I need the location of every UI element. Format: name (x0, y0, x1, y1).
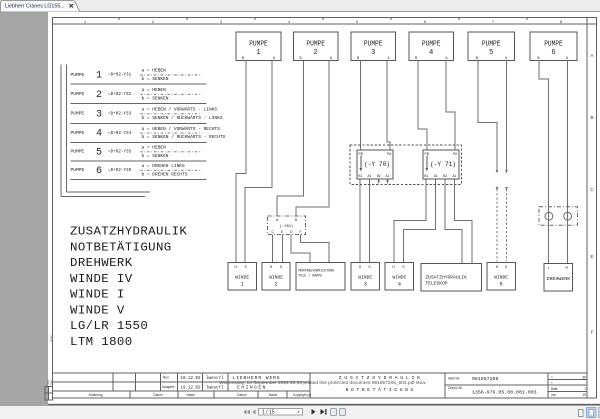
svg-text:B: B (590, 115, 593, 120)
svg-text:PUMPE: PUMPE (364, 40, 383, 48)
svg-text:5: 5 (356, 20, 358, 24)
svg-text:WINDE V: WINDE V (70, 303, 125, 317)
svg-text:A1: A1 (434, 174, 438, 178)
svg-text:Name: Name (269, 393, 278, 397)
svg-text:2: 2 (275, 282, 278, 288)
svg-text:(-Y 70): (-Y 70) (364, 161, 390, 168)
svg-text:a = HEBEN / VORWÄRTS - LINKS: a = HEBEN / VORWÄRTS - LINKS (142, 106, 218, 113)
svg-text:B1: B1 (424, 174, 428, 178)
svg-text:Wednesday, 14 September 2022 2: Wednesday, 14 September 2022 22:34 print… (219, 380, 427, 386)
svg-text:B2: B2 (377, 174, 381, 178)
svg-text:NOTBETÄTIGUNG: NOTBETÄTIGUNG (70, 240, 172, 254)
svg-text:5: 5 (489, 49, 493, 57)
svg-text:WINDE: WINDE (494, 275, 508, 281)
svg-text:DREHWERK: DREHWERK (547, 276, 571, 282)
svg-text:19.12.02: 19.12.02 (180, 386, 201, 390)
svg-text:WINDE: WINDE (235, 275, 249, 281)
svg-text:+: + (551, 381, 553, 385)
svg-text:2: 2 (314, 49, 318, 57)
svg-text:PUMPE: PUMPE (71, 167, 85, 173)
svg-text:a = DREHEN LINKS: a = DREHEN LINKS (142, 163, 186, 169)
svg-text:a = HEBEN / VORWÄRTS - RECHTS: a = HEBEN / VORWÄRTS - RECHTS (142, 125, 221, 132)
svg-text:3: 3 (371, 49, 375, 57)
svg-text:=: = (551, 375, 553, 379)
svg-text:2: 2 (152, 20, 154, 24)
svg-text:E: E (590, 254, 593, 259)
svg-text:WINDE IV: WINDE IV (70, 272, 133, 286)
svg-text:(-Y 71): (-Y 71) (430, 161, 456, 168)
svg-text:1: 1 (96, 71, 102, 82)
svg-text:Datum: Datum (237, 393, 247, 397)
svg-text:5: 5 (96, 147, 102, 158)
svg-text:7: 7 (492, 20, 494, 24)
svg-text:b = SENKEN / RÜCKWÄRTS - LINKS: b = SENKEN / RÜCKWÄRTS - LINKS (142, 114, 223, 121)
svg-text:1: 1 (241, 282, 244, 288)
svg-text:b = SENKEN / RÜCKWÄRTS - RECHT: b = SENKEN / RÜCKWÄRTS - RECHTS (142, 133, 226, 140)
svg-text:=D+02-Y32: =D+02-Y32 (108, 92, 132, 97)
svg-text:WINDE: WINDE (358, 275, 372, 281)
svg-text:4: 4 (398, 282, 401, 288)
svg-text:Blatt: Blatt (551, 387, 557, 391)
svg-text:F: F (299, 230, 301, 234)
svg-text:PUMPE: PUMPE (71, 149, 85, 155)
svg-text:1: 1 (84, 20, 86, 24)
svg-text:Änderung: Änderung (89, 393, 103, 397)
svg-text:Rev.: Rev. (163, 376, 169, 380)
svg-text:F: F (591, 330, 594, 335)
svg-text:a = HEBEN: a = HEBEN (142, 68, 167, 74)
svg-text:1: 1 (256, 49, 260, 57)
svg-text:DREHWERK: DREHWERK (70, 256, 133, 270)
svg-text:=D+02-Y35: =D+02-Y35 (108, 150, 132, 155)
svg-text:A2: A2 (386, 174, 390, 178)
svg-text:Ausgabe: Ausgabe (162, 385, 175, 389)
svg-text:19.12.02: 19.12.02 (180, 377, 201, 381)
svg-text:B1: B1 (358, 174, 362, 178)
svg-text:=D+02-Y36: =D+02-Y36 (108, 168, 132, 173)
svg-text:15: 15 (582, 393, 586, 397)
svg-text:PUMPE: PUMPE (422, 40, 441, 48)
svg-text:A2: A2 (452, 174, 456, 178)
svg-text:5: 5 (500, 282, 503, 288)
svg-text:PUMPE: PUMPE (249, 40, 268, 48)
svg-text:lwescrl: lwescrl (206, 385, 224, 390)
svg-text:B2: B2 (443, 174, 447, 178)
svg-text:2: 2 (96, 90, 102, 101)
svg-text:PUMPE: PUMPE (71, 130, 85, 136)
svg-text:4: 4 (288, 20, 290, 24)
svg-text:Urspr.: Urspr. (49, 334, 53, 342)
svg-text:Name: Name (187, 393, 196, 397)
svg-text:3: 3 (220, 20, 222, 24)
svg-text:981957208: 981957208 (472, 376, 498, 382)
svg-text:8: 8 (560, 20, 562, 24)
svg-text:A: A (590, 53, 593, 58)
svg-text:(-Y61): (-Y61) (280, 224, 294, 229)
svg-text:6: 6 (551, 49, 555, 57)
svg-text:Zeichn-Nr.: Zeichn-Nr. (448, 386, 463, 390)
svg-text:4: 4 (96, 129, 102, 140)
svg-text:TELESKOP: TELESKOP (426, 281, 448, 287)
svg-text:PUMPE: PUMPE (71, 111, 85, 117)
svg-text:WINDE I: WINDE I (70, 288, 125, 302)
svg-text:1: 1 (584, 387, 586, 391)
svg-text:LTM 1800: LTM 1800 (70, 335, 133, 349)
svg-text:4: 4 (429, 49, 433, 57)
svg-text:WINDE: WINDE (393, 275, 407, 281)
svg-text:=D+02-Y31: =D+02-Y31 (108, 73, 132, 78)
svg-text:Datum: Datum (153, 393, 163, 397)
svg-text:1356-976.05.00.001-003: 1356-976.05.00.001-003 (472, 390, 537, 396)
svg-text:TELE / RAUPE: TELE / RAUPE (299, 274, 323, 278)
svg-text:a = HEBEN: a = HEBEN (142, 87, 167, 93)
svg-text:ZUSATZHYDRAULIK: ZUSATZHYDRAULIK (70, 225, 187, 239)
svg-text:b = SENKEN: b = SENKEN (142, 76, 169, 82)
svg-text:=D+02-Y33: =D+02-Y33 (108, 112, 132, 117)
svg-text:A1: A1 (368, 174, 372, 178)
svg-text:PUMPE: PUMPE (482, 40, 501, 48)
svg-text:Ident-Nr.: Ident-Nr. (448, 377, 460, 381)
svg-text:von: von (551, 393, 556, 397)
svg-text:MONTAGEVORRICHTUNG: MONTAGEVORRICHTUNG (299, 269, 335, 273)
svg-text:Tag: Tag (49, 380, 53, 385)
svg-text:PUMPE: PUMPE (71, 72, 85, 78)
svg-text:WINDE: WINDE (269, 275, 283, 281)
svg-text:L: L (548, 266, 550, 270)
svg-text:6: 6 (424, 20, 426, 24)
svg-text:3: 3 (364, 282, 367, 288)
svg-text:PUMPE: PUMPE (544, 40, 563, 48)
svg-text:ZUSATZHYDRAULIK: ZUSATZHYDRAULIK (426, 275, 468, 281)
svg-text:LG/LR 1550: LG/LR 1550 (70, 319, 148, 333)
svg-text:b = DREHEN RECHTS: b = DREHEN RECHTS (142, 171, 188, 177)
svg-text:a = HEBEN: a = HEBEN (142, 145, 167, 151)
svg-text:6: 6 (96, 166, 102, 177)
svg-text:Copyright (c): Copyright (c) (293, 393, 311, 397)
svg-text:PUMPE: PUMPE (71, 91, 85, 97)
svg-text:b = SENKEN: b = SENKEN (142, 153, 169, 159)
svg-text:PUMPE: PUMPE (306, 40, 325, 48)
svg-text:60: 60 (582, 375, 586, 379)
svg-text:b = SENKEN: b = SENKEN (142, 95, 169, 101)
svg-text:=D+02-Y34: =D+02-Y34 (108, 131, 132, 136)
svg-text:Nam: Nam (46, 378, 50, 385)
svg-text:3: 3 (96, 109, 102, 120)
svg-text:NOTBETÄTIGUNG: NOTBETÄTIGUNG (346, 386, 416, 393)
